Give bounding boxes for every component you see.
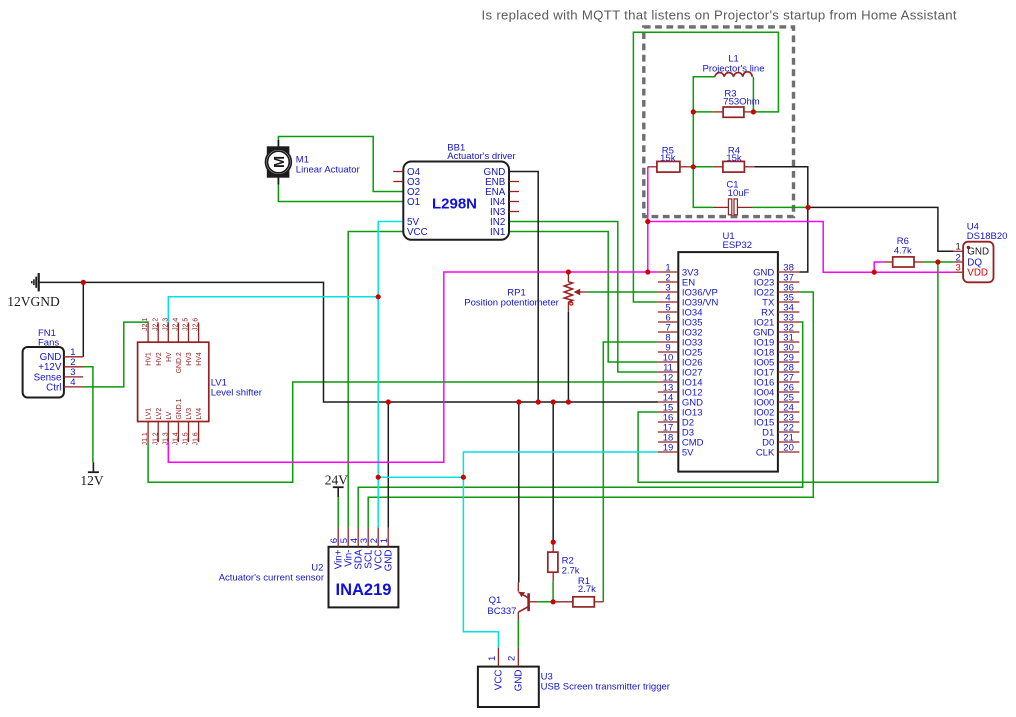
svg-text:VCC: VCC: [494, 670, 505, 691]
wire GND node right to DS18B20 GND (pin 1): [808, 207, 953, 251]
junction magenta at ESP32 3V3: [645, 269, 650, 274]
svg-text:753Ohm: 753Ohm: [723, 97, 760, 108]
svg-text:GND: GND: [383, 550, 394, 572]
wire Q1 base node greens: [538, 601, 553, 603]
junction green DQ node: [935, 259, 940, 264]
wire GND node down to ESP32 GND (pin 38): [799, 207, 807, 272]
junction cyan at U3 branch: [461, 475, 466, 480]
dashed group box for projector-line sense circuit: [644, 27, 794, 217]
svg-text:L298N: L298N: [432, 196, 477, 213]
svg-text:HV3: HV3: [186, 352, 193, 366]
wire ESP32 5V (pin 19) down to U3 VCC (pin 1): [463, 452, 658, 648]
LV1 bottom pin stubs J1.1-J1.6: [147, 422, 149, 443]
wire R1 right lead up to ESP32 IO33 (pin 8): [603, 342, 658, 602]
svg-text:GND: GND: [967, 247, 989, 258]
resistor R1 2.7k horizontal: [556, 601, 573, 603]
pin stub U4 VDD (3): [953, 271, 963, 273]
junction green L1/R3 right: [751, 109, 756, 114]
svg-text:24V: 24V: [325, 473, 349, 488]
wire Q1 emitter down to U3 GND (pin 2): [517, 620, 519, 648]
LV1 top pin stubs J2.1-J2.6: [147, 323, 149, 343]
wire R6 right lead to DQ node and to DS18B20 DQ (pin 2): [924, 261, 953, 263]
U3 pin stubs 1 2: [497, 648, 499, 667]
svg-text:12VGND: 12VGND: [7, 294, 60, 309]
wire R2 bottom lead to base node: [552, 581, 554, 602]
svg-text:M: M: [272, 156, 288, 168]
svg-text:Ctrl: Ctrl: [46, 382, 61, 393]
wire LV1 J1.1 to ESP32 IO14 (pin 12): [148, 382, 658, 482]
svg-text:J2.1: J2.1: [142, 318, 149, 331]
junction R2 top: [551, 540, 556, 545]
junction cyan 5V lower branch: [376, 475, 381, 480]
resistor R6 4.7k: [883, 261, 893, 263]
wire L1 left leg down to R3 left node: [693, 77, 715, 112]
pin stub U4 DQ (2): [953, 261, 963, 263]
junction at 12VGND rail / FN1 GND: [81, 280, 86, 285]
svg-text:LV2: LV2: [156, 408, 163, 420]
svg-text:J1.3: J1.3: [162, 432, 169, 445]
svg-text:INA219: INA219: [336, 581, 392, 599]
svg-text:J2.4: J2.4: [173, 318, 180, 331]
svg-text:3: 3: [956, 263, 961, 274]
inductor L1 Projector's line: [715, 72, 752, 77]
svg-text:J1.2: J1.2: [152, 432, 159, 445]
svg-text:4.7k: 4.7k: [894, 245, 912, 256]
power symbol 24V: [333, 487, 344, 497]
wire 12VGND junction down to FN1 GND (pin 1): [82, 282, 84, 356]
wire 3V3 rail to ESP32 3V3 (pin 1): [648, 271, 658, 273]
svg-text:2: 2: [507, 656, 518, 661]
wire 5V branch cross link: [378, 476, 463, 478]
pin stub L298N O3: [393, 181, 403, 183]
svg-text:15k: 15k: [660, 153, 676, 164]
svg-text:10uF: 10uF: [728, 188, 750, 199]
wire 12VGND rail to ESP32 GND (pin 14): [39, 282, 658, 402]
U4 orientation dot: [967, 246, 970, 249]
op-amp-style block BB1 L298N actuator driver: [403, 162, 509, 240]
wire ESP32 IO21 (pin 33) to INA219 SDA (pin 4): [358, 322, 803, 528]
svg-text:Level shifter: Level shifter: [211, 387, 262, 398]
junction Q1 base node: [551, 599, 556, 604]
svg-text:J2.3: J2.3: [162, 318, 169, 331]
svg-text:4: 4: [70, 377, 75, 388]
wire 3V3 branch up to R6 left lead: [874, 262, 883, 272]
wire GND rail branch down to Q1 collector: [518, 402, 520, 583]
resistor R5 15k: [648, 166, 657, 168]
svg-text:1: 1: [487, 656, 498, 661]
resistor R3 753Ohm: [713, 111, 723, 113]
wire FN1 Ctrl to LV1 J2.1: [83, 322, 148, 387]
svg-text:HV1: HV1: [146, 352, 153, 366]
resistor R4 15k: [713, 166, 723, 168]
svg-text:J1.4: J1.4: [173, 432, 180, 445]
sensor U4 DS18B20: [963, 242, 993, 283]
svg-text:IN1: IN1: [490, 227, 505, 238]
wire 24V symbol to INA219 Vin+ (pin 6): [337, 497, 339, 527]
svg-text:O1: O1: [407, 197, 420, 208]
svg-text:GND.1: GND.1: [176, 398, 183, 419]
svg-text:1: 1: [379, 538, 390, 543]
svg-text:VDD: VDD: [967, 268, 988, 279]
svg-text:2.7k: 2.7k: [562, 566, 580, 577]
svg-text:HV4: HV4: [196, 352, 203, 366]
junctions on GND rail: [386, 399, 391, 404]
wire ESP32 IO22 (pin 36) to INA219 SCL (pin 3): [368, 292, 813, 528]
svg-text:J1.1: J1.1: [142, 432, 149, 445]
wire C1 right lead to GND node: [753, 206, 809, 208]
svg-text:Q1: Q1: [489, 595, 502, 606]
svg-text:DS18B20: DS18B20: [967, 231, 1008, 242]
IC U1 ESP32: [678, 252, 778, 472]
junction green L1/R3 left: [691, 109, 696, 114]
junction magenta at R6 branch: [872, 270, 877, 275]
junction magenta at R5 column: [645, 219, 650, 224]
svg-text:VCC: VCC: [407, 227, 428, 238]
wire M1 bottom to L298N O1: [278, 178, 403, 202]
junction green R5/R4 node: [691, 164, 696, 169]
wire 5V branch left to LV1 J2.3: [168, 297, 378, 323]
wire L298N VCC to INA219 Vin- (pin 5): [348, 232, 403, 528]
wire GND rail branch down to R2 top: [552, 402, 554, 542]
ESP32 right pins 38-20 with stubs, numbers, names: [778, 271, 800, 273]
svg-text:19: 19: [663, 442, 674, 453]
wire 3V3 rail left and down to LV1 J1.3: [168, 272, 648, 462]
svg-text:HV: HV: [166, 352, 173, 362]
svg-text:2.7k: 2.7k: [578, 584, 596, 595]
wire node to R3 left lead: [693, 111, 712, 113]
transistor Q1 BC337: [518, 583, 538, 621]
wire L298N 5V left and down to INA219 VCC (pin 2): [378, 222, 403, 528]
power symbol 12V: [88, 462, 99, 472]
ground 12VGND symbol: [32, 273, 39, 291]
trigger module U3 USB Screen transmitter trigger: [478, 667, 539, 707]
junction GND node above ESP32: [806, 205, 811, 210]
svg-text:1: 1: [956, 242, 961, 253]
junction cyan 5V at LV1 branch: [376, 294, 381, 299]
wire junction to R4 left lead: [693, 166, 713, 168]
svg-text:HV2: HV2: [156, 352, 163, 366]
svg-text:J2.5: J2.5: [183, 318, 190, 331]
svg-text:12V: 12V: [80, 473, 104, 488]
wire L298N IN1 to ESP32 IO26 (pin 10): [509, 232, 658, 363]
svg-text:5V: 5V: [682, 447, 694, 458]
svg-text:BC337: BC337: [487, 606, 516, 617]
svg-text:USB Screen transmitter trigger: USB Screen transmitter trigger: [541, 682, 670, 693]
svg-text:Projector's line: Projector's line: [702, 63, 764, 74]
svg-text:Position potentiometer: Position potentiometer: [464, 298, 559, 309]
wire GND rail branch down to INA219 GND (pin 1): [387, 402, 389, 528]
svg-text:Is replaced with MQTT that lis: Is replaced with MQTT that listens on Pr…: [482, 8, 957, 23]
wire R5 right lead to junction: [690, 166, 693, 168]
wire 3V3 net: R5 left lead down: [647, 167, 649, 272]
svg-text:Fans: Fans: [38, 338, 59, 349]
INA219 top pin stubs 6-1: [337, 528, 339, 547]
wire RP1 wiper to ESP32 IO36/VP (pin 3): [588, 291, 658, 293]
svg-text:Actuator's driver: Actuator's driver: [447, 151, 515, 162]
wire FN1 +12V down to 12V power symbol: [83, 367, 93, 462]
svg-text:GND.2: GND.2: [176, 352, 183, 373]
wire DQ node down and left to ESP32 IO13 (pin 15): [638, 262, 938, 482]
svg-text:20: 20: [783, 442, 794, 453]
pin stub L298N O4: [393, 171, 403, 173]
svg-text:J2.6: J2.6: [193, 318, 200, 331]
svg-text:GND: GND: [514, 670, 525, 692]
svg-text:15k: 15k: [726, 153, 742, 164]
wire GND rail branch up to L298N GND: [509, 172, 538, 403]
svg-text:J2.2: J2.2: [152, 318, 159, 331]
svg-text:LV: LV: [166, 411, 173, 419]
wire M1 top to L298N O2: [278, 137, 403, 192]
pin stubs L298N ENB ENA IN4 IN3: [509, 181, 519, 183]
svg-text:Linear Actuator: Linear Actuator: [296, 164, 360, 175]
svg-text:ESP32: ESP32: [723, 240, 753, 251]
pin stub U4 GND (1): [953, 250, 963, 252]
wire GND rail branch up to RP1 bottom: [567, 312, 569, 402]
wire projector line top loop: ESP32 IO39/VN (pin 4) up over dashed box to L1/R3 right side: [633, 32, 778, 302]
capacitor C1 10uF: [713, 206, 729, 208]
wire L1 right leg down to R3 right node: [752, 77, 754, 112]
svg-text:LV3: LV3: [186, 408, 193, 420]
wire 3V3 net: over to R6 and DS18B20 VDD (pin 3): [648, 222, 954, 273]
level shifter LV1: [138, 342, 209, 421]
FN1 pin stubs 1-4: [64, 356, 83, 358]
svg-text:LV1: LV1: [146, 408, 153, 420]
resistor R2 2.7k vertical: [552, 542, 554, 552]
motor M1 Linear Actuator: [266, 140, 292, 185]
wire node R3-left down to R5/R4 junction and down to C1 left: [693, 112, 713, 207]
svg-text:J1.6: J1.6: [193, 432, 200, 445]
svg-text:CLK: CLK: [756, 447, 775, 458]
connector FN1 Fans: [23, 347, 64, 398]
junction magenta 3V3 at RP1: [566, 269, 571, 274]
potentiometer RP1 Position potentiometer: [564, 274, 588, 312]
svg-text:Actuator's current sensor: Actuator's current sensor: [219, 573, 324, 584]
wire L298N IN2 to ESP32 IO27 (pin 11): [509, 222, 658, 373]
svg-text:J1.5: J1.5: [183, 432, 190, 445]
RP1 wiper arrow: [579, 291, 589, 293]
current sensor U2 INA219: [329, 547, 399, 608]
wire R4 right to GND node above ESP32: [754, 167, 807, 208]
svg-text:LV4: LV4: [196, 408, 203, 420]
ESP32 left pins 1-19 with stubs, numbers, names: [658, 271, 678, 273]
